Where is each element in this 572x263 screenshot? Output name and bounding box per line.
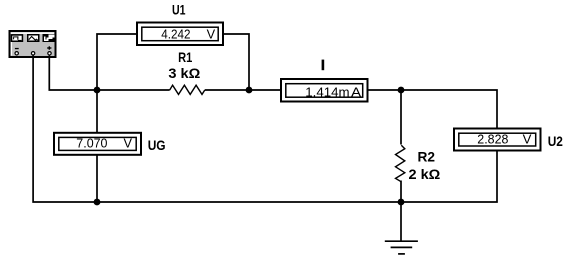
wire node C down to resistor R2 bbox=[400, 90, 402, 145]
voltmeter U1 bbox=[137, 23, 223, 46]
bottom rail UG junction bbox=[94, 199, 101, 206]
svg-text:V: V bbox=[523, 132, 532, 147]
svg-text:A: A bbox=[351, 84, 361, 99]
svg-text:7.070: 7.070 bbox=[76, 136, 107, 151]
terminal plus bbox=[48, 52, 51, 55]
plus terminal label bbox=[47, 46, 51, 49]
triangle wave button bbox=[27, 34, 40, 42]
wire bottom rail from ground node to UG node bbox=[97, 201, 401, 203]
wire ammeter to node C and corner to voltmeter U2 bbox=[368, 90, 498, 128]
wire node A up to voltmeter U1 left bbox=[97, 34, 137, 90]
svg-text:UG: UG bbox=[148, 137, 166, 153]
terminal common bbox=[31, 52, 34, 55]
wire resistor R1 to ammeter bbox=[205, 89, 281, 91]
wire from plus terminal down and right to node A bbox=[49, 55, 97, 90]
minus terminal label bbox=[15, 48, 19, 49]
svg-text:4.242: 4.242 bbox=[161, 27, 190, 42]
wire node A down to voltmeter UG top bbox=[96, 90, 98, 132]
node A junction bbox=[94, 87, 101, 94]
svg-text:2.828: 2.828 bbox=[477, 132, 508, 147]
ground bbox=[385, 202, 418, 254]
node C junction bbox=[398, 87, 405, 94]
terminal minus bbox=[15, 52, 18, 55]
node B junction bbox=[246, 87, 253, 94]
svg-text:2 kΩ: 2 kΩ bbox=[409, 166, 441, 182]
wire voltmeter U1 right down to node B bbox=[223, 34, 249, 90]
voltmeter U2 bbox=[454, 129, 541, 151]
svg-text:R2: R2 bbox=[418, 149, 436, 165]
voltmeter UG bbox=[54, 133, 141, 155]
resistor R1 bbox=[170, 85, 205, 94]
wire voltmeter UG bottom to bottom rail bbox=[96, 156, 98, 203]
sine wave button bbox=[11, 34, 24, 42]
svg-text:1.414m: 1.414m bbox=[305, 84, 349, 99]
bottom rail ground junction bbox=[398, 199, 405, 206]
wire resistor R2 to ground node bbox=[400, 181, 402, 203]
ammeter I bbox=[281, 79, 368, 102]
wire voltmeter U2 bottom down to bottom rail bbox=[401, 152, 497, 203]
svg-text:U2: U2 bbox=[548, 133, 563, 149]
function generator bbox=[10, 31, 56, 57]
svg-text:U1: U1 bbox=[172, 1, 186, 17]
resistor R2 bbox=[396, 145, 405, 182]
wire node A to resistor R1 bbox=[97, 89, 170, 91]
label I bbox=[322, 60, 325, 71]
square wave button (selected) bbox=[43, 34, 56, 42]
svg-text:V: V bbox=[124, 136, 133, 151]
svg-text:R1: R1 bbox=[178, 49, 192, 65]
svg-text:3 kΩ: 3 kΩ bbox=[168, 65, 200, 81]
wire from common terminal down to bottom rail bbox=[33, 55, 97, 202]
svg-text:V: V bbox=[207, 27, 216, 42]
